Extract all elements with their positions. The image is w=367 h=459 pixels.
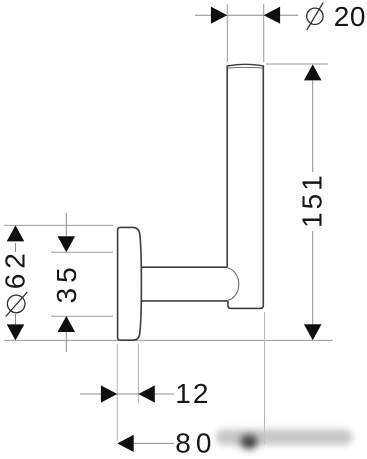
extension line lower for 35: [51, 315, 113, 317]
svg-text:35: 35: [51, 262, 82, 303]
extension line upper for 35: [51, 251, 113, 253]
extension line right vertical for dia20: [263, 4, 265, 62]
tube lower-left step and bottom: [228, 66, 263, 309]
tube top dome: [227, 64, 263, 66]
arrow 35 lower (points up): [58, 316, 76, 332]
arm top edge: [141, 266, 228, 268]
arm rounded tip inside tube: [227, 268, 238, 301]
extension line vertical x=264 below tube: [264, 312, 266, 444]
arrow 151 bottom: [304, 324, 322, 340]
dimension line 151: [312, 80, 314, 172]
arrow dia62 bottom: [7, 324, 25, 340]
svg-text:20: 20: [334, 1, 366, 32]
dimension line 12: [80, 393, 174, 395]
dimension line dia62 segments: [15, 243, 17, 252]
tube top weld line: [228, 66, 262, 69]
arrow 151 top: [304, 64, 322, 80]
extension line top for 151: [266, 63, 328, 65]
dimension line 35 lower: [65, 331, 67, 352]
svg-text:12: 12: [175, 378, 210, 409]
wall plate outline: [118, 227, 142, 340]
diameter symbol for 20: [307, 3, 324, 31]
svg-text:151: 151: [296, 172, 327, 228]
arrow 80 left (points left): [117, 435, 133, 452]
svg-text:62: 62: [0, 248, 31, 289]
arrow dia20 right: [264, 7, 280, 24]
dimension line 35 upper: [65, 213, 67, 237]
arrow dia62 top: [7, 225, 25, 241]
extension line top for dia62: [4, 224, 113, 226]
svg-text:80: 80: [175, 428, 216, 459]
extension line vertical x=138 below plate: [137, 344, 139, 403]
extension line left vertical for dia20: [226, 4, 228, 62]
tube left edge: [226, 66, 228, 267]
dimension line dia20: [195, 14, 298, 16]
arrow dia20 left: [211, 7, 227, 24]
watermark band: [216, 430, 352, 446]
dimension line 80: [134, 442, 174, 444]
arm bottom edge: [141, 300, 228, 302]
arrow 12 right (points left): [138, 385, 154, 402]
extension line vertical x=117 below plate: [116, 344, 118, 441]
diameter symbol for 62: [6, 292, 28, 316]
arrow 12 left (points right): [101, 385, 117, 402]
extension line bottom shared (62 and 151): [4, 339, 333, 341]
watermark dark blob: [241, 435, 258, 449]
arrow 35 upper (points down): [58, 236, 76, 252]
